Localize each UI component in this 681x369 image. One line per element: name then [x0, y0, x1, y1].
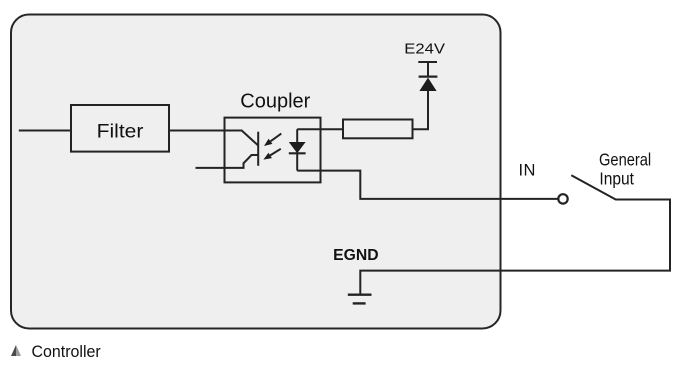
- svg-text:Input: Input: [599, 169, 634, 189]
- svg-text:Controller: Controller: [32, 343, 102, 361]
- svg-text:EGND: EGND: [333, 247, 378, 264]
- svg-text:IN: IN: [519, 161, 536, 179]
- svg-text:Filter: Filter: [97, 121, 144, 143]
- svg-text:General: General: [599, 149, 651, 169]
- svg-text:E24V: E24V: [404, 40, 446, 57]
- svg-text:Coupler: Coupler: [240, 90, 310, 112]
